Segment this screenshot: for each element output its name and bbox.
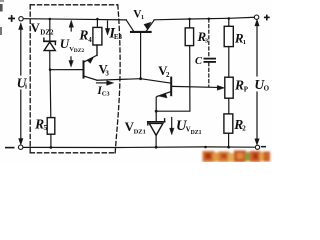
R1 top lead xyxy=(228,18,230,26)
junction VDZ1/bottom rail xyxy=(155,146,158,149)
junction V1 base node xyxy=(139,77,142,80)
svg-text:O: O xyxy=(264,85,270,93)
wire node A to V3 base xyxy=(50,69,83,71)
V1 collector diagonal xyxy=(126,20,133,31)
svg-text:i: i xyxy=(25,83,27,91)
zener VDZ2 lead from rail xyxy=(49,19,51,41)
R1 to Rp lead xyxy=(228,47,230,78)
svg-text:V: V xyxy=(31,20,41,35)
svg-text:C3: C3 xyxy=(102,90,111,97)
svg-text:E3: E3 xyxy=(114,33,123,41)
current arrow on rail (up) xyxy=(70,26,72,31)
minus sign output xyxy=(261,146,266,148)
Ui annotation line xyxy=(20,24,22,75)
scan edge smudges xyxy=(0,4,3,12)
IC3 arrow xyxy=(97,82,108,84)
transistor V3 (PNP) base bar xyxy=(83,61,85,77)
resistor R1 xyxy=(224,26,233,46)
junction R3/top rail xyxy=(188,18,191,21)
minus sign input xyxy=(5,147,15,149)
junction R4/top rail xyxy=(96,18,99,21)
svg-text:R: R xyxy=(78,28,88,43)
R3 top lead xyxy=(189,19,191,28)
VDZ1 bottom lead xyxy=(155,135,157,147)
label + input xyxy=(8,15,15,22)
R5 bottom lead xyxy=(50,134,52,147)
svg-text:U: U xyxy=(60,36,70,51)
svg-text:C: C xyxy=(195,56,203,67)
V1 base wire down xyxy=(140,33,142,79)
junction R2/bottom rail xyxy=(227,146,230,149)
VDZ2 anode wire down to node A xyxy=(49,51,51,70)
svg-text:DZ2: DZ2 xyxy=(74,48,85,54)
svg-text:2: 2 xyxy=(242,125,246,133)
V3 emitter diagonal with arrow to bar xyxy=(84,55,97,62)
UVDZ1 arrow xyxy=(171,118,173,130)
R4 top lead xyxy=(96,19,98,27)
resistor R5 xyxy=(47,118,55,135)
R3 bottom lead down and left to V2 emitter node xyxy=(156,46,190,112)
zener VDZ2 symbol xyxy=(44,38,56,50)
watermark xyxy=(203,151,271,163)
label Ui xyxy=(15,75,28,90)
capacitor C dashed leads xyxy=(208,19,210,87)
junction dot on bottom rail xyxy=(204,146,207,149)
V3 collector diagonal xyxy=(84,76,97,80)
junction R5/bottom rail xyxy=(50,146,53,149)
zener VDZ1 top lead xyxy=(155,111,157,121)
top rail right segment xyxy=(154,17,255,20)
resistor R2 xyxy=(224,114,233,133)
svg-text:DZ1: DZ1 xyxy=(191,130,202,136)
svg-text:DZ2: DZ2 xyxy=(40,29,54,37)
top rail left segment xyxy=(23,19,126,20)
input + terminal xyxy=(19,17,23,21)
svg-text:4: 4 xyxy=(88,36,92,44)
potentiometer RP xyxy=(225,77,233,98)
label Uo xyxy=(253,77,270,93)
transistor V2 (NPN) base bar xyxy=(170,78,172,96)
svg-text:P: P xyxy=(244,85,249,93)
IE3 arrow xyxy=(107,21,109,30)
output - terminal xyxy=(255,145,259,149)
wire node A down to R5 xyxy=(49,70,52,118)
bottom rail xyxy=(23,146,256,149)
junction VDZ2/top rail xyxy=(49,18,52,21)
resistor R4 xyxy=(93,27,102,45)
svg-text:2: 2 xyxy=(166,71,170,79)
output + terminal xyxy=(254,15,258,19)
V2 emitter diagonal with arrow xyxy=(157,92,170,97)
zener VDZ1 symbol xyxy=(148,119,165,136)
junction V2 emitter node xyxy=(155,110,158,113)
node A junction dot xyxy=(49,68,52,71)
input - terminal xyxy=(19,145,23,149)
Rp to R2 lead xyxy=(228,98,230,114)
wiper wire from V2 base to Rp xyxy=(172,86,217,87)
R2 bottom lead xyxy=(228,133,230,147)
Uo annotation line xyxy=(256,24,258,76)
svg-text:R: R xyxy=(234,77,244,92)
wire V3 collector to V2 (node with V1 base) xyxy=(97,79,171,83)
junction R1/top rail xyxy=(228,17,231,20)
svg-text:DZ1: DZ1 xyxy=(134,128,146,135)
UVDZ2 arrow xyxy=(70,57,72,62)
capacitor C plates xyxy=(204,58,215,60)
resistor R3 xyxy=(185,28,193,46)
svg-text:1: 1 xyxy=(141,14,144,21)
dashed box xyxy=(30,5,120,153)
junction C lead/top rail xyxy=(208,18,211,21)
svg-text:5: 5 xyxy=(44,124,48,132)
V1 emitter diagonal with arrow xyxy=(146,20,154,31)
transistor V1 (NPN pass) base bar xyxy=(131,31,151,33)
svg-text:1: 1 xyxy=(243,39,246,46)
svg-text:3: 3 xyxy=(105,69,109,77)
label + output xyxy=(264,15,270,21)
R4 bottom lead xyxy=(96,45,98,55)
